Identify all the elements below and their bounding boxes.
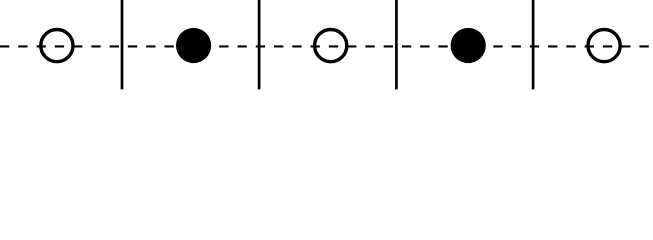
node 2 (filled circle site) [176, 28, 211, 63]
node 4 (filled circle site) [451, 28, 486, 63]
node 3 (open circle site) [315, 29, 347, 61]
cell boundary line 4 [532, 0, 535, 89]
node 5 (open circle site) [588, 29, 620, 61]
wire (dashed horizontal axis line) [0, 45, 653, 47]
cell boundary line 3 [395, 0, 398, 89]
cell boundary line 1 [121, 0, 124, 89]
node 1 (open circle site) [41, 29, 73, 61]
cell boundary line 2 [258, 0, 261, 89]
